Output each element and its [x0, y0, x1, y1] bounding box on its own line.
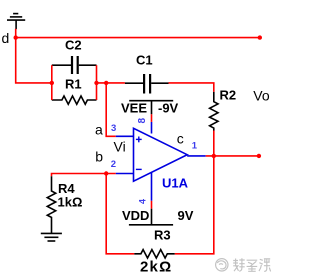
wire: box left vertical (parallel connection): [51, 65, 53, 100]
svg-text:R2: R2: [220, 87, 237, 102]
wire: VEE stem to pin 8: [151, 114, 153, 122]
VEE power bar: [129, 101, 173, 115]
resistor R1 (zigzag, bottom branch of parallel pair): [52, 96, 97, 104]
svg-text:c: c: [177, 131, 184, 147]
wire: top horizontal from node d to right edge: [16, 37, 260, 39]
svg-text:R1: R1: [65, 77, 82, 92]
svg-text:a: a: [95, 122, 103, 138]
op-amp U1A triangle: [134, 128, 188, 181]
wire: to non-inverting input (node a): [106, 83, 116, 136]
wire: node b down to bottom row and to R3: [106, 174, 134, 254]
svg-text:VEE: VEE: [121, 100, 147, 115]
watermark text (stylized gray glyphs): [233, 258, 270, 271]
node: top wire right end dot: [258, 35, 262, 39]
resistor R4 (vertical zigzag): [47, 176, 55, 233]
op-amp plus marker: [136, 137, 142, 143]
resistor R3 (horizontal zigzag): [134, 250, 175, 258]
svg-text:1kΩ: 1kΩ: [58, 195, 83, 210]
pin 1 output stub: [187, 155, 206, 157]
svg-text:VDD: VDD: [122, 208, 149, 223]
pin 2 stub: [116, 173, 134, 175]
pin 3 stub: [116, 135, 134, 137]
svg-text:3: 3: [111, 123, 116, 134]
output wire (node c): [206, 155, 259, 157]
ground (top-left, inverted earth symbol): [7, 14, 25, 30]
op-amp minus marker: [136, 168, 142, 170]
output junction dot: [212, 154, 216, 158]
svg-text:-9V: -9V: [158, 100, 179, 115]
wire: pin 4 to VDD stem: [151, 201, 153, 209]
ground (below R4): [41, 233, 62, 241]
svg-text:2kΩ: 2kΩ: [140, 259, 172, 276]
svg-text:2: 2: [111, 159, 116, 170]
svg-text:C2: C2: [65, 37, 82, 52]
wire: node b row from R4 to inverting input: [52, 174, 116, 177]
svg-text:9V: 9V: [178, 208, 194, 223]
svg-text:1: 1: [192, 141, 198, 152]
svg-text:U1A: U1A: [162, 175, 189, 190]
junction dot box left: [50, 81, 54, 85]
svg-text:R3: R3: [154, 227, 171, 242]
capacitor C1: [125, 74, 169, 94]
wire: R3 right to output vertical: [175, 156, 214, 254]
junction dot node to inputs: [104, 81, 108, 85]
VDD power bar: [129, 209, 173, 225]
wire: left vertical from ground down to RC row, then to box: [16, 29, 52, 83]
node d junction dot: [14, 35, 18, 39]
pin 8 stub: [151, 122, 153, 134]
wire: box right vertical (parallel connection): [96, 65, 98, 100]
junction dot box right: [94, 81, 98, 85]
svg-text:Vo: Vo: [253, 87, 270, 103]
wire: R2 bottom to output node: [213, 131, 215, 156]
svg-text:b: b: [95, 149, 103, 165]
capacitor C2: [52, 56, 97, 74]
svg-text:d: d: [2, 30, 10, 46]
wire: C1 to R2 top corner: [169, 83, 214, 92]
wire: box right to C1: [97, 82, 125, 84]
pin 4 stub: [151, 172, 153, 201]
output end dot: [257, 154, 261, 158]
svg-text:8: 8: [137, 117, 148, 123]
svg-text:C1: C1: [136, 53, 153, 68]
watermark logo circle: [216, 259, 228, 271]
svg-text:4: 4: [137, 199, 147, 204]
svg-text:Vi: Vi: [114, 139, 126, 155]
junction dot node b: [104, 171, 108, 175]
resistor R2 (vertical zigzag): [210, 92, 218, 131]
